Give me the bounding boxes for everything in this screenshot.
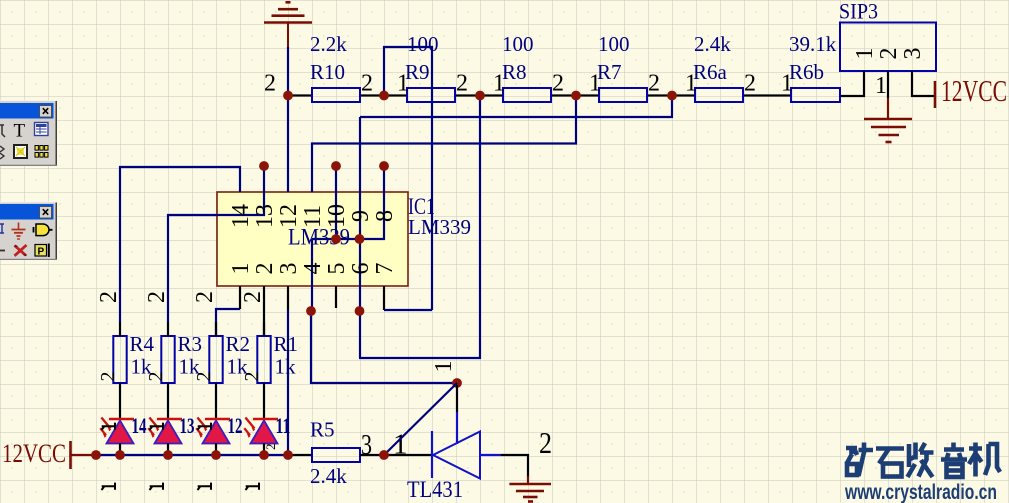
wire bus480 down (480,95)-(480,358)-(360,358) <box>359 96 480 359</box>
power port 12VCC right <box>935 73 1007 108</box>
wire pin4 column (312,239)-(312,311) <box>311 239 313 311</box>
svg-text:11: 11 <box>276 413 291 438</box>
R3 top pin stub <box>167 322 169 336</box>
resistor R1 1k <box>257 332 298 383</box>
resistor R6a <box>685 32 756 102</box>
junction (96,455) <box>91 450 101 460</box>
R4 bottom pin stub <box>119 383 121 419</box>
LED D1 <box>244 418 278 444</box>
svg-text:LM339: LM339 <box>408 215 471 239</box>
svg-text:2: 2 <box>252 263 278 275</box>
ground GND bottom <box>509 476 551 502</box>
svg-text:2: 2 <box>361 71 373 97</box>
pin 1 stub <box>239 286 241 309</box>
svg-text:P: P <box>38 247 45 258</box>
R2 bottom pin stub <box>215 383 217 419</box>
svg-text:R6b: R6b <box>789 60 824 84</box>
svg-text:1: 1 <box>493 71 505 97</box>
svg-text:1: 1 <box>589 71 601 97</box>
resistor R9 <box>397 32 468 102</box>
junction (288,455) <box>283 450 293 460</box>
svg-text:2: 2 <box>96 291 122 303</box>
svg-text:12VCC: 12VCC <box>941 73 1007 108</box>
svg-text:2: 2 <box>192 291 218 303</box>
wire pin10 internal (336,166)-(336,239) <box>335 166 337 239</box>
junction (359.5,311) <box>355 306 365 316</box>
junction (216,455) <box>211 450 221 460</box>
pin number 2 (D4 top) <box>102 423 116 430</box>
svg-text:6: 6 <box>348 263 374 275</box>
svg-text:3: 3 <box>900 48 926 60</box>
junction (336,239) <box>331 234 341 244</box>
svg-text:2: 2 <box>193 372 215 382</box>
toolbar window 2 <box>0 202 57 261</box>
svg-text:R3: R3 <box>178 332 203 356</box>
svg-text:2: 2 <box>744 71 756 97</box>
LED D1 bottom pin <box>263 444 265 456</box>
wire pin9/pin6 column (360,117)-(360,358) <box>359 117 361 358</box>
svg-text:8: 8 <box>372 210 398 222</box>
svg-text:2: 2 <box>145 372 167 382</box>
TL431 ref pin vertical <box>456 385 458 412</box>
toolbar1 icons <box>0 121 48 160</box>
svg-text:2: 2 <box>539 425 552 460</box>
wire top bus segments <box>288 94 791 96</box>
junction (311,311) <box>306 306 316 316</box>
junction (264,455) <box>259 450 269 460</box>
wire pin7 to crossover (384,310)-(432,310) <box>384 309 432 311</box>
pin number 1 (D2 bottom) <box>198 483 212 490</box>
resistor R6b <box>781 32 840 102</box>
junction (384,166) <box>379 161 389 171</box>
junction (359.5,239) <box>355 234 365 244</box>
svg-text:1: 1 <box>852 48 878 60</box>
pin 2 stub to R1 <box>263 286 265 336</box>
svg-text:1: 1 <box>875 73 887 99</box>
svg-text:R6a: R6a <box>693 60 728 84</box>
svg-text:3: 3 <box>276 263 302 275</box>
ground GND top (inverted) <box>264 2 312 47</box>
svg-text:100: 100 <box>598 32 630 56</box>
wire pin12 ground column (288,95)-(288,192) <box>287 96 289 193</box>
R5 left pin <box>288 454 312 456</box>
wire pin1 to R2 (240,309)-(216,309)-(216,336) <box>216 309 240 336</box>
LED D2 <box>196 418 230 444</box>
svg-text:3: 3 <box>361 429 372 461</box>
svg-text:R1: R1 <box>274 332 299 356</box>
svg-text:12VCC: 12VCC <box>2 439 66 468</box>
junction (120,455) <box>115 450 125 460</box>
wire bus672 to pin9 (672,95)-(672,117)-(360,117) <box>360 96 672 118</box>
resistor R8 <box>493 32 564 102</box>
svg-text:www.crystalradio.cn: www.crystalradio.cn <box>844 481 997 503</box>
svg-text:1: 1 <box>228 263 254 275</box>
wire pin8/R9 crossover (384,95)-(384,47)-(432,47)-(432,310) <box>384 47 432 310</box>
svg-text:1: 1 <box>397 71 409 97</box>
wire ground to bus <box>287 47 289 96</box>
resistor R3 1k <box>161 332 202 383</box>
wire internal (312,239)-(384,239)-(384,166) <box>312 166 384 239</box>
svg-text:2: 2 <box>876 48 902 60</box>
LED D3 bottom pin <box>167 444 169 456</box>
resistor R10 <box>264 32 373 102</box>
transistor TL431 <box>432 431 501 479</box>
svg-text:7: 7 <box>372 263 398 275</box>
pin number 2 (D2 top) <box>198 423 212 430</box>
svg-text:TL431: TL431 <box>407 477 463 502</box>
resistor R5 2.4k <box>310 418 360 489</box>
ground GND under SIP3 <box>864 98 912 142</box>
wire TL431 ref diagonal (384,455)-(457,383) <box>384 383 457 455</box>
R2 top pin stub <box>215 322 217 336</box>
resistor R2 1k <box>209 332 250 383</box>
svg-text:R10: R10 <box>310 60 345 84</box>
watermark crystalradio <box>846 443 1000 478</box>
svg-text:4: 4 <box>300 263 326 275</box>
svg-text:2: 2 <box>240 291 266 303</box>
junction (264,166) <box>259 161 269 171</box>
svg-text:1: 1 <box>685 71 697 97</box>
power port 12VCC left <box>2 439 96 469</box>
junction (336,166) <box>331 161 341 171</box>
toolbar window 1 <box>0 100 57 166</box>
svg-text:2: 2 <box>144 291 170 303</box>
wire pin4 to TL431 ref (311,311)-(311,383)-(457,383) <box>311 311 457 383</box>
LED D2 bottom pin <box>215 444 217 456</box>
op-amp U1 IC1 LM339 body <box>217 192 408 286</box>
svg-text:10: 10 <box>324 204 350 228</box>
svg-text:T: T <box>14 121 26 142</box>
svg-text:R4: R4 <box>130 332 155 356</box>
junction (672,95) <box>667 91 677 101</box>
svg-text:13: 13 <box>252 204 278 228</box>
R5 right pin <box>360 454 384 456</box>
LED D4 <box>100 418 134 444</box>
svg-text:2: 2 <box>648 71 660 97</box>
svg-text:2: 2 <box>552 71 564 97</box>
svg-text:2: 2 <box>241 372 263 382</box>
SIP3 pin2 lead <box>887 71 889 98</box>
svg-text:R8: R8 <box>502 60 527 84</box>
svg-text:12: 12 <box>276 204 302 228</box>
pin number 2 (D3 top) <box>150 423 164 430</box>
svg-text:2: 2 <box>456 71 468 97</box>
pin 7 stub <box>383 286 385 310</box>
junction (576,95) <box>571 91 581 101</box>
toolbar2 icons <box>0 223 53 258</box>
svg-text:2: 2 <box>264 71 276 97</box>
svg-text:100: 100 <box>407 32 439 56</box>
TL431 left pin <box>384 454 432 456</box>
svg-text:9: 9 <box>348 210 374 222</box>
LED D3 <box>148 418 182 444</box>
junction (168,455) <box>163 450 173 460</box>
svg-text:R5: R5 <box>310 418 335 442</box>
junction (288,95) <box>283 91 293 101</box>
junction (457,383) <box>452 378 462 388</box>
svg-text:5: 5 <box>324 263 350 275</box>
pin 5 stub <box>335 286 337 308</box>
R4 top pin stub <box>119 322 121 336</box>
wire bus576 to pin11 (576,95)-(576,143)-(312,143)-(312,192) <box>312 96 576 193</box>
TL431 cathode pin <box>501 455 528 477</box>
svg-text:2.4k: 2.4k <box>310 464 347 488</box>
svg-text:14: 14 <box>132 413 147 438</box>
LED D4 bottom pin <box>119 444 121 456</box>
svg-text:39.1k: 39.1k <box>789 32 837 56</box>
junction (384,95) <box>379 91 389 101</box>
wire bottom bus (96,455)-(288,455) <box>96 454 288 456</box>
svg-text:2.4k: 2.4k <box>694 32 731 56</box>
wire pin3 to bus (288,310)-(288,455) <box>287 310 289 455</box>
svg-text:12: 12 <box>228 413 243 438</box>
SIP3 pin3 lead <box>912 71 934 96</box>
svg-text:R2: R2 <box>226 332 251 356</box>
svg-text:1: 1 <box>781 71 793 97</box>
R3 bottom pin stub <box>167 383 169 419</box>
resistor R7 <box>589 32 660 102</box>
connector SIP3 <box>840 23 936 72</box>
R1 top pin stub <box>263 322 265 336</box>
junction (480,95) <box>475 91 485 101</box>
pin number 1 (D4 bottom) <box>102 483 116 490</box>
svg-text:11: 11 <box>300 205 326 228</box>
junction (384,455) <box>379 450 389 460</box>
svg-text:13: 13 <box>180 413 195 438</box>
R1 bottom pin stub <box>263 383 265 419</box>
svg-text:100: 100 <box>502 32 534 56</box>
pin 3 stub <box>287 286 289 310</box>
svg-text:1k: 1k <box>275 355 297 379</box>
svg-text:1: 1 <box>431 361 457 373</box>
svg-text:2: 2 <box>97 372 119 382</box>
resistor R4 1k <box>113 332 154 383</box>
wire pin14 to R4 (240,192)-(240,167)-(120,167)-(120,322) <box>120 167 240 322</box>
svg-text:2.2k: 2.2k <box>310 32 347 56</box>
svg-text:14: 14 <box>228 204 254 228</box>
pin number 1 (D3 bottom) <box>150 483 164 490</box>
pin number 1 (D1 bottom) <box>246 483 260 490</box>
svg-text:2: 2 <box>263 444 278 451</box>
wire pin13 to R3 (264,166)-(264,215)-(168,215)-(168,322) <box>168 166 264 322</box>
SIP3 pin1 lead <box>841 71 864 96</box>
svg-text:SIP3: SIP3 <box>839 0 878 24</box>
